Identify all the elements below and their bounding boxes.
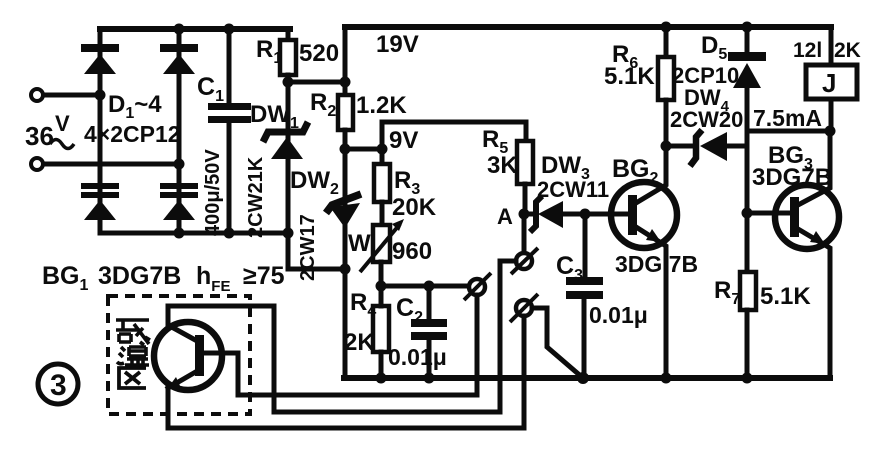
svg-text:2CP10: 2CP10	[672, 63, 739, 88]
wire bottom rail of rectifier section	[100, 231, 288, 236]
svg-text:400μ/50V: 400μ/50V	[202, 149, 224, 236]
node top rail right leg	[174, 24, 185, 35]
node rail R6	[661, 22, 672, 33]
dashed sensor box	[108, 296, 250, 414]
svg-text:5.1K: 5.1K	[604, 63, 655, 90]
node 9V	[377, 144, 388, 155]
svg-text:20K: 20K	[392, 194, 437, 221]
label sensing zone char 3	[119, 368, 146, 388]
node DW3 right	[580, 209, 591, 220]
resistor R4	[373, 286, 389, 378]
diode D3	[81, 183, 119, 220]
node R1 bottom	[283, 77, 294, 88]
svg-text:3DG7B: 3DG7B	[752, 164, 832, 191]
wire plug1 to sensor base	[207, 295, 477, 395]
node C2 top	[424, 281, 435, 292]
wire R2 to 9V node	[345, 147, 382, 152]
diode D2	[160, 44, 198, 74]
label D1~4	[108, 91, 162, 122]
node relay bottom	[825, 126, 836, 137]
svg-text:1.2K: 1.2K	[356, 92, 407, 119]
node R2 bottom	[340, 144, 351, 155]
svg-text:2K: 2K	[834, 39, 861, 62]
svg-text:0.01μ: 0.01μ	[589, 302, 648, 328]
svg-text:2CW20: 2CW20	[670, 107, 743, 132]
capacitor C2	[411, 286, 447, 378]
diode D4	[160, 183, 198, 220]
wire plug3 to ground diagonal	[532, 308, 583, 378]
node bottom rail DW1	[283, 228, 294, 239]
svg-text:D1~4: D1~4	[108, 91, 162, 122]
transistor BG3	[747, 131, 839, 378]
svg-text:960: 960	[392, 238, 432, 265]
svg-text:W: W	[348, 230, 371, 257]
svg-text:V: V	[55, 111, 70, 136]
wire 7.5mA row	[747, 129, 830, 134]
svg-text:3K: 3K	[487, 152, 518, 179]
terminal input 2	[31, 158, 179, 170]
svg-text:19V: 19V	[376, 31, 419, 58]
transistor BG1	[154, 306, 238, 390]
wire bridge left leg	[98, 29, 103, 233]
connector plug 1	[464, 273, 491, 300]
label 4x2CP12	[84, 121, 181, 147]
main bottom rail	[344, 375, 830, 381]
node BG3 base	[742, 208, 753, 219]
svg-text:2CW11: 2CW11	[537, 177, 609, 202]
node BG2 collector	[661, 141, 672, 152]
svg-text:A: A	[497, 204, 513, 229]
resistor R2	[338, 82, 353, 149]
node A	[519, 209, 530, 220]
resistor R5	[517, 122, 533, 214]
wire 19V rail drop	[343, 27, 348, 82]
diode D5	[728, 27, 766, 213]
label 36V	[25, 111, 74, 151]
svg-text:0.01μ: 0.01μ	[388, 344, 447, 370]
resistor R7	[740, 213, 756, 378]
capacitor C3	[566, 214, 603, 378]
node rail R4	[376, 373, 387, 384]
node bridge right mid	[174, 159, 185, 170]
svg-text:J: J	[822, 68, 836, 98]
connector plug 3	[510, 294, 538, 322]
svg-text:5.1K: 5.1K	[760, 283, 811, 310]
zener DW2	[326, 149, 361, 378]
node rail C2	[424, 373, 435, 384]
node W bottom	[376, 281, 387, 292]
node rail R7	[742, 373, 753, 384]
svg-text:12l: 12l	[793, 39, 822, 62]
node rail D5	[742, 22, 753, 33]
terminal input 1	[31, 89, 100, 101]
svg-text:36: 36	[25, 121, 54, 151]
zener DW1	[263, 82, 308, 233]
relay J	[806, 27, 857, 131]
wire 9V rail	[382, 122, 526, 149]
label BG1 line	[42, 262, 285, 295]
wire wiper row	[381, 284, 469, 289]
label sensing zone char 1	[116, 320, 150, 345]
svg-text:520: 520	[299, 40, 339, 67]
node bridge left mid	[95, 90, 106, 101]
wire plug3 to sensor emitter	[168, 316, 524, 428]
wire plug2 to sensor collector	[168, 261, 516, 412]
node bottom rail C1	[224, 228, 235, 239]
zener DW3	[524, 196, 585, 232]
svg-text:9V: 9V	[389, 127, 418, 154]
wire bridge right leg	[177, 29, 182, 233]
svg-text:7.5mA: 7.5mA	[753, 105, 822, 131]
figure number 3	[38, 364, 78, 404]
svg-text:3: 3	[50, 369, 67, 402]
wire 19V top rail	[345, 24, 831, 30]
wire top rail left	[100, 26, 290, 32]
svg-text:2K: 2K	[344, 329, 375, 356]
svg-text:2CW21K: 2CW21K	[245, 156, 267, 238]
node top rail C1	[224, 24, 235, 35]
svg-text:3DG7B: 3DG7B	[98, 262, 181, 290]
svg-text:4×2CP12: 4×2CP12	[84, 121, 181, 147]
resistor R6	[658, 27, 674, 146]
connector plug 2	[511, 248, 538, 274]
capacitor C1	[208, 29, 251, 233]
label sensing zone char 2	[117, 347, 149, 365]
wire node A to plug2	[522, 214, 527, 253]
zener DW4	[666, 130, 747, 166]
transistor BG2	[585, 146, 677, 378]
svg-text:2CW17: 2CW17	[297, 214, 319, 281]
wire R1 bottom to R2 top	[288, 80, 345, 85]
node rail C3	[577, 372, 589, 384]
svg-text:3DG 7B: 3DG 7B	[615, 251, 698, 277]
potentiometer W	[360, 219, 404, 286]
node ground link	[340, 264, 351, 275]
wire ground link left	[288, 233, 345, 269]
diode D1	[81, 44, 119, 74]
node 19V drop	[340, 77, 351, 88]
resistor R1	[280, 29, 296, 82]
node bottom rail right leg	[174, 228, 185, 239]
node rail BG2 emitter	[661, 373, 672, 384]
svg-text:≥75: ≥75	[243, 262, 285, 290]
resistor R3	[374, 149, 390, 225]
